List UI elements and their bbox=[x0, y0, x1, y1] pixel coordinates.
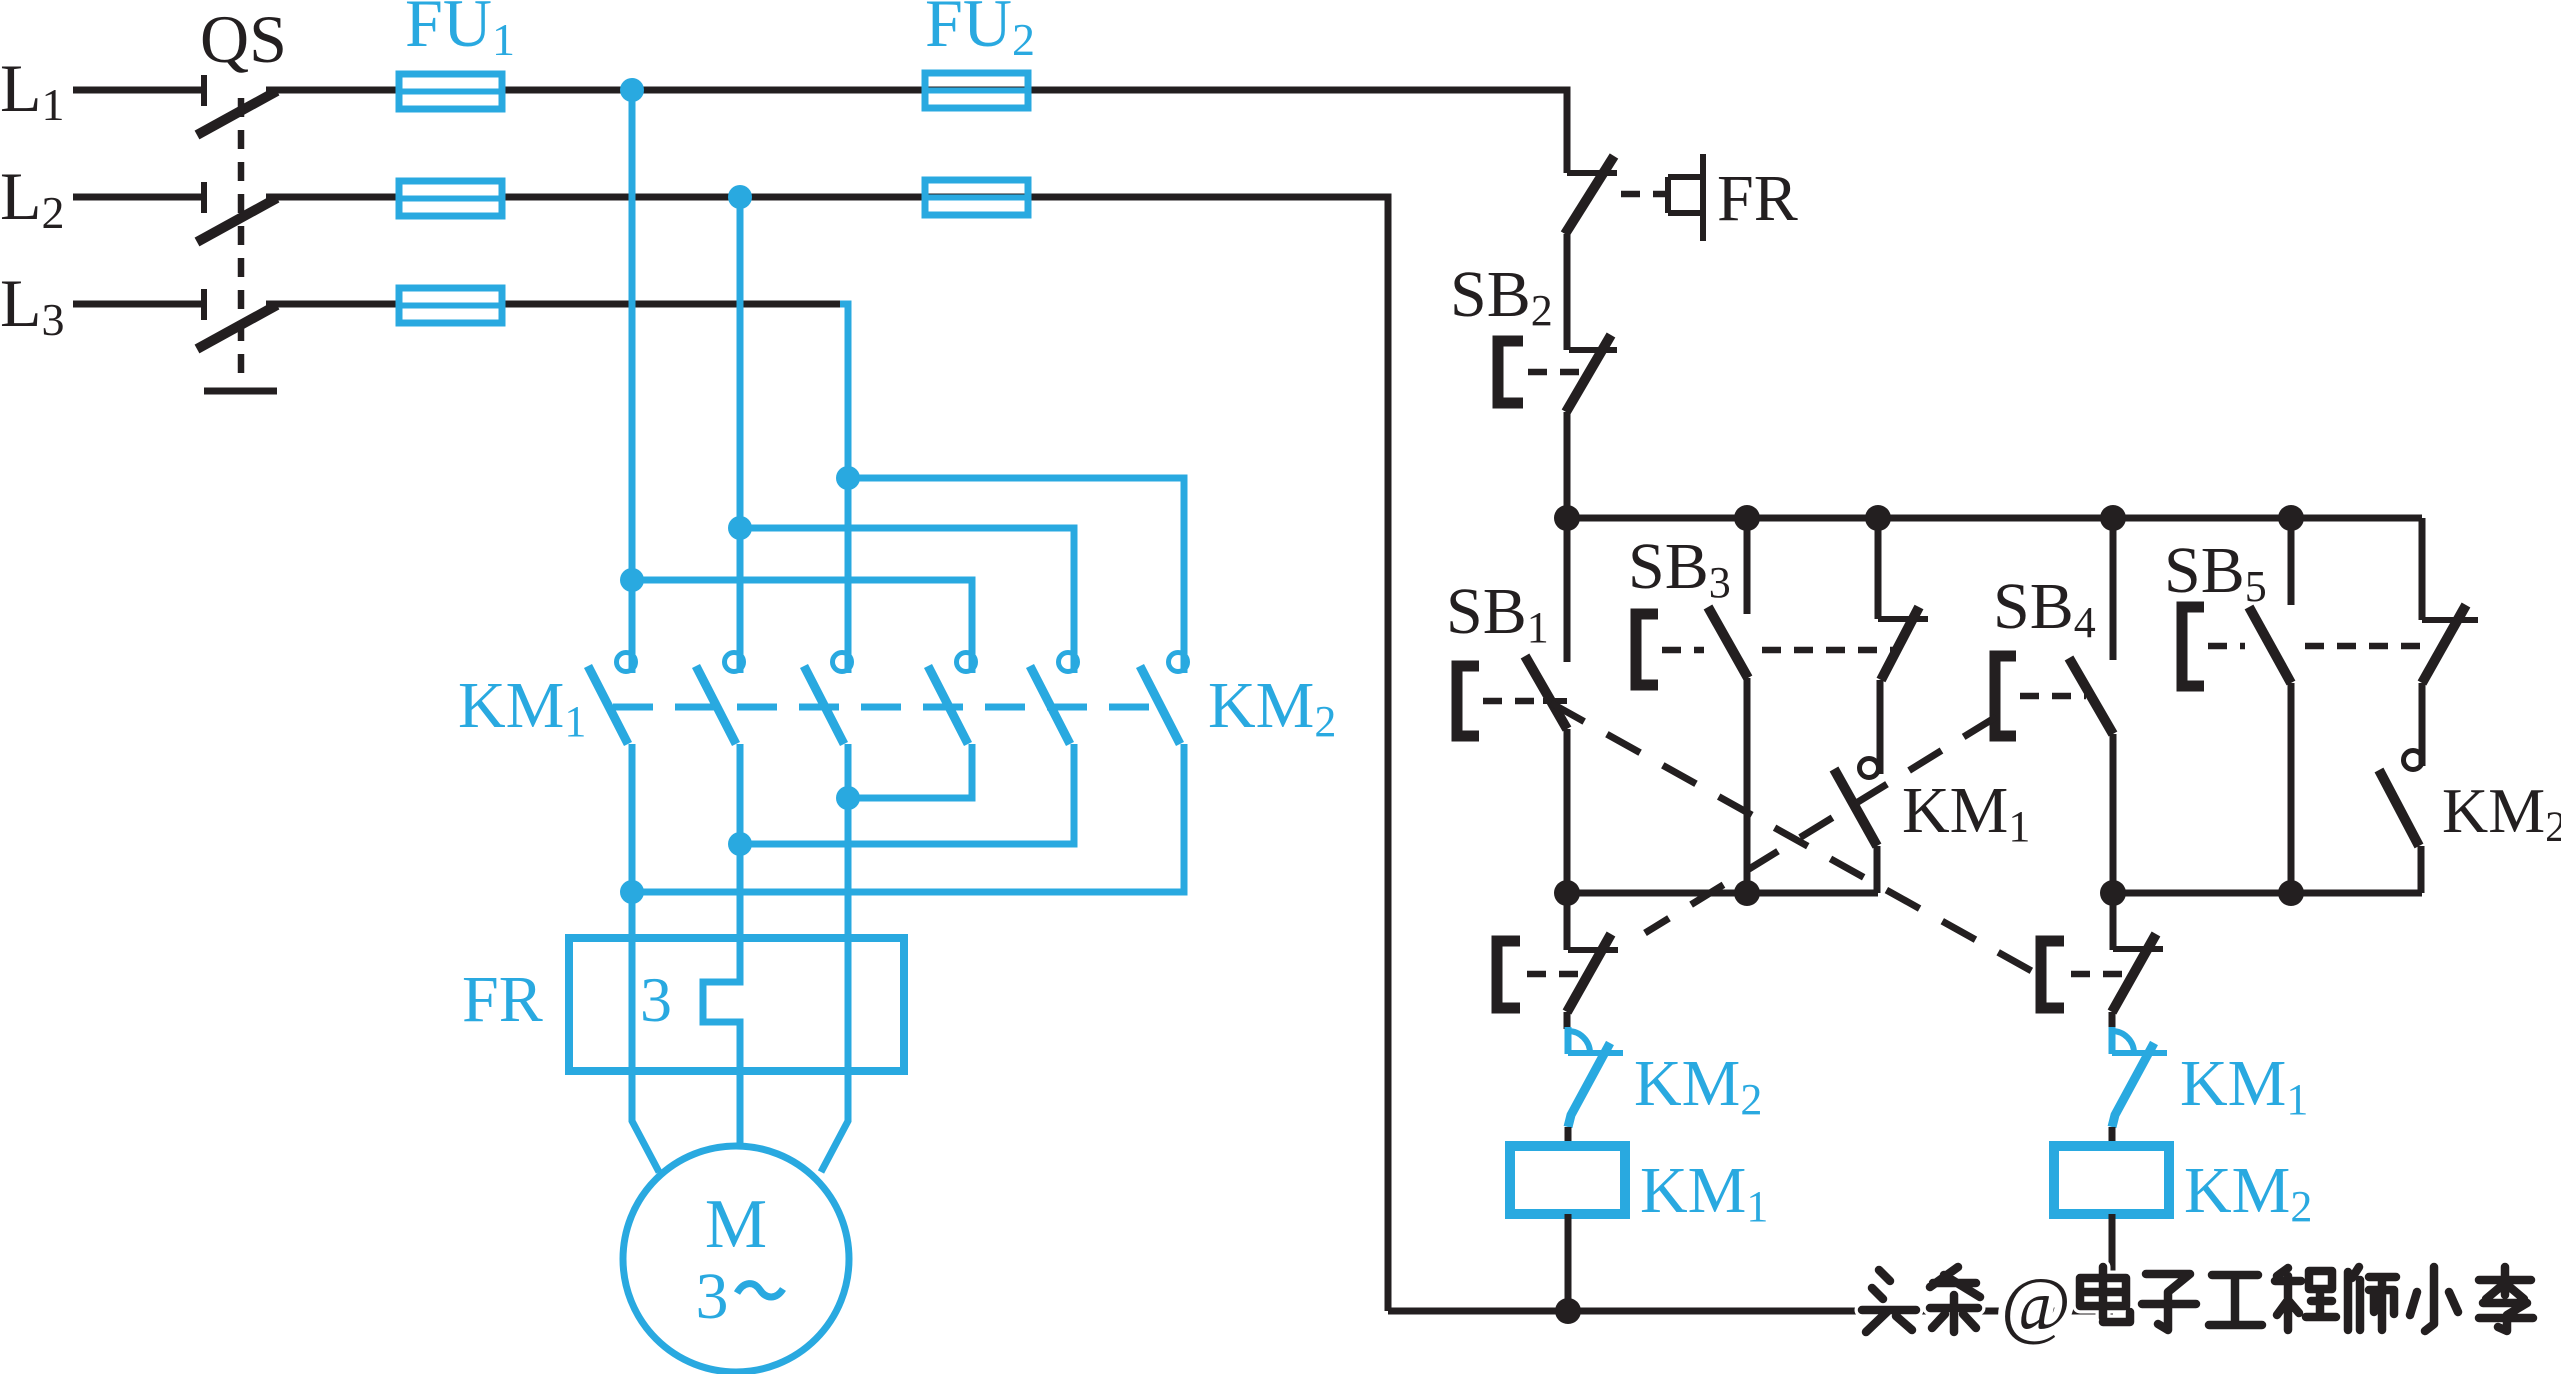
contactor KM2 NC interlock label bbox=[1634, 1047, 1762, 1124]
fuse FU2 pole 1 bbox=[925, 73, 1028, 108]
contactor KM1 NC interlock label bbox=[2180, 1047, 2308, 1124]
mechanical link SB1 to KM2-branch NC (diagonal dashed) bbox=[1551, 703, 2037, 974]
svg-text:SB4: SB4 bbox=[1993, 570, 2096, 647]
NC interlock contact (SB4 linked) tick bbox=[1568, 947, 1618, 953]
svg-text:@: @ bbox=[2001, 1263, 2071, 1347]
wire SB4 to mid bus bbox=[2110, 734, 2117, 893]
wire KM2 pole 3 down and crossover to phase U bbox=[632, 744, 1184, 892]
wire mid bus to SB4-linked NC contact bbox=[1564, 893, 1571, 950]
contactor KM2 main contact pole 2 bbox=[1030, 653, 1078, 745]
wire phase U vertical to KM1 pole 1 bbox=[629, 90, 636, 673]
pushbutton SB2 actuator link dashes bbox=[1528, 369, 1585, 376]
wire L1 QS to FU1 bbox=[266, 87, 399, 94]
wire SB2 to top bus bbox=[1564, 412, 1571, 518]
wire FR box to motor right lead bbox=[821, 1071, 848, 1172]
wire mid bus to SB1-linked NC contact bbox=[2110, 893, 2117, 950]
node junction L1 power branch bbox=[620, 78, 644, 102]
wire branch U to KM2 pole 1 bbox=[632, 580, 972, 673]
node junction L2 power branch bbox=[728, 185, 752, 209]
pushbutton SB2 NC contact tick bbox=[1569, 347, 1617, 353]
wire SB3 NC to KM1 aux contact bbox=[1877, 680, 1884, 774]
wire NC to KM2 interlock bbox=[1564, 1012, 1571, 1029]
pushbutton SB2 NC contact blade bbox=[1566, 335, 1611, 412]
value label 3 inside FR box bbox=[640, 964, 672, 1035]
NC interlock (SB1 linked) actuator bbox=[2041, 941, 2064, 1008]
wire KM1 pole 3 down to FR box bbox=[845, 744, 852, 1071]
coil KM1 bbox=[1510, 1146, 1625, 1214]
pushbutton SB5 actuator bbox=[2182, 607, 2204, 686]
switch QS label bbox=[200, 1, 287, 77]
wire L3 FU1 to corner bbox=[502, 301, 842, 308]
svg-text:M: M bbox=[705, 1186, 767, 1263]
svg-text:KM1: KM1 bbox=[1902, 774, 2030, 851]
wire KM2 aux to mid bus corner bbox=[2418, 846, 2425, 893]
node L3 bbox=[0, 265, 65, 345]
wire L2 QS to FU1 bbox=[266, 194, 399, 201]
thermal relay FR release bracket bbox=[1668, 154, 1703, 241]
wire SB5 NC to KM2 aux contact bbox=[2419, 683, 2426, 766]
thermal relay FR NC contact tick bbox=[1567, 170, 1617, 176]
wire top bus to SB3 NC contact bbox=[1875, 518, 1882, 619]
thermal relay FR heater element bbox=[703, 950, 740, 1053]
wire top bus to SB5 bbox=[2288, 518, 2295, 605]
pushbutton SB4 actuator bbox=[1995, 656, 2016, 736]
NC interlock contact (SB1 linked) tick bbox=[2113, 946, 2163, 952]
wire branch W to KM2 pole 3 bbox=[848, 478, 1184, 673]
svg-text:L1: L1 bbox=[0, 50, 65, 130]
wire L3 QS to FU1 bbox=[266, 301, 399, 308]
node top bus junction 5 bbox=[2278, 505, 2304, 531]
pushbutton SB4 label bbox=[1993, 570, 2096, 647]
svg-text:QS: QS bbox=[200, 1, 287, 77]
wire L1 FU1 to corner, down to FR contact bbox=[502, 90, 1567, 173]
pushbutton SB4 actuator link dashes bbox=[2020, 693, 2086, 700]
wire top bus to SB1 bbox=[1564, 518, 1571, 662]
wire FR box to motor middle lead bbox=[737, 1053, 744, 1146]
fuse FU1 label bbox=[405, 0, 515, 65]
wire phase W corner down to KM1 pole 3 bbox=[840, 304, 848, 673]
NC interlock (SB4 linked) actuator bbox=[1497, 941, 1520, 1008]
wire phase V vertical to KM1 pole 2 bbox=[737, 197, 744, 673]
wire KM2 coil to bottom bus bbox=[2109, 1214, 2116, 1311]
node bottom bus junction bbox=[1555, 1298, 1581, 1324]
node L1 bbox=[0, 50, 65, 130]
pushbutton SB1 NC contact blade bbox=[1525, 656, 1567, 729]
wire L2 FU1 to corner, long return down to bottom bus bbox=[502, 197, 1388, 1311]
svg-text:FR: FR bbox=[462, 963, 543, 1036]
node junction phase W branch to KM2 bbox=[836, 466, 860, 490]
pushbutton SB3 NC contact blade bbox=[1881, 607, 1919, 680]
fuse FU1 pole 3 bbox=[399, 288, 502, 323]
NC interlock (SB4 linked) actuator link dashes bbox=[1527, 971, 1580, 978]
contactor KM1 aux NO contact circle bbox=[1860, 759, 1879, 778]
contactor KM2 aux NO contact circle bbox=[2404, 751, 2423, 770]
pushbutton SB3 label bbox=[1628, 530, 1731, 607]
node top bus junction 4 bbox=[2100, 505, 2126, 531]
switch QS pole 3 contact tick bbox=[201, 289, 207, 320]
pushbutton SB1 actuator link dashes bbox=[1483, 698, 1538, 705]
thermal relay FR heater box bbox=[569, 938, 904, 1071]
svg-text:KM1: KM1 bbox=[1640, 1154, 1768, 1231]
pushbutton SB5 NC contact tick bbox=[2422, 617, 2478, 623]
node top bus junction 3 bbox=[1865, 505, 1891, 531]
watermark white casing bbox=[1862, 1263, 2533, 1347]
contactor KM1 main contact pole 2 bbox=[696, 653, 744, 745]
thermal relay FR contact label bbox=[1717, 162, 1798, 235]
pushbutton SB1 actuator bbox=[1457, 666, 1479, 736]
contactor KM2 main contact pole 1 bbox=[928, 653, 976, 745]
thermal relay FR NC link dashes bbox=[1621, 191, 1666, 198]
wire mid bus left bbox=[1567, 890, 1878, 897]
contactor KM2 NC interlock contact (cyan) bbox=[1568, 1027, 1623, 1127]
svg-text:SB5: SB5 bbox=[2164, 534, 2267, 611]
contactor KM1 aux NO contact blade bbox=[1834, 769, 1877, 846]
pushbutton SB4 NO contact blade bbox=[2069, 658, 2113, 734]
svg-text:KM2: KM2 bbox=[1208, 669, 1336, 746]
svg-text:FU2: FU2 bbox=[925, 0, 1035, 65]
wire KM1 coil to bottom bus bbox=[1565, 1214, 1572, 1311]
fuse FU2 label bbox=[925, 0, 1035, 65]
thermal relay FR NC contact blade bbox=[1565, 156, 1614, 234]
contactor KM1 label bbox=[458, 669, 586, 746]
wire top bus bbox=[1567, 515, 2422, 522]
pushbutton SB1 NC contact tick bbox=[1543, 698, 1567, 704]
svg-text:KM2: KM2 bbox=[2184, 1154, 2312, 1231]
wire FR contact to SB2 bbox=[1564, 234, 1571, 350]
wire bottom bus bbox=[1388, 1308, 2113, 1315]
wire KM1 aux to mid bus corner bbox=[1874, 846, 1881, 893]
wire SB3 to mid bus bbox=[1744, 678, 1751, 893]
svg-text:KM1: KM1 bbox=[2180, 1047, 2308, 1124]
contactor KM2 aux label bbox=[2442, 775, 2561, 851]
wire KM2 pole 2 down and crossover to phase V bbox=[740, 744, 1074, 844]
contactor KM2 main contact pole 3 bbox=[1140, 653, 1188, 745]
svg-text:L3: L3 bbox=[0, 265, 65, 345]
wire FR box to motor left lead bbox=[632, 1071, 659, 1172]
svg-text:3: 3 bbox=[696, 1260, 729, 1333]
node junction crossover W bbox=[836, 786, 860, 810]
pushbutton SB5 label bbox=[2164, 534, 2267, 611]
svg-text:FR: FR bbox=[1717, 162, 1798, 235]
contactor KM1 main contact pole 1 bbox=[588, 653, 636, 745]
wire top bus to SB4 bbox=[2110, 518, 2117, 660]
svg-text:SB2: SB2 bbox=[1450, 258, 1553, 335]
NC interlock (SB1 linked) actuator link dashes bbox=[2071, 971, 2124, 978]
contactor KM1 NC interlock contact (cyan) bbox=[2112, 1027, 2167, 1127]
pushbutton SB2 actuator bbox=[1498, 341, 1523, 403]
node mid bus left junction 2 bbox=[1734, 880, 1760, 906]
wire branch V to KM2 pole 2 bbox=[740, 528, 1074, 673]
wire SB1 to mid bus bbox=[1564, 729, 1571, 893]
switch QS pole 2 blade bbox=[197, 198, 277, 242]
switch QS pole 3 blade bbox=[197, 305, 277, 349]
svg-text:L2: L2 bbox=[0, 158, 65, 238]
motor M circle bbox=[623, 1146, 849, 1372]
wire KM1 pole 2 down to FR heater bbox=[737, 744, 744, 950]
wire NC to KM1 interlock bbox=[2109, 1012, 2116, 1029]
wire KM1 interlock to KM2 coil bbox=[2109, 1127, 2116, 1146]
coil KM1 label bbox=[1640, 1154, 1768, 1231]
wire SB5 to mid bus bbox=[2288, 683, 2295, 893]
node junction phase U branch to KM2 bbox=[620, 568, 644, 592]
mechanical link SB5 to its NC contact dashes bbox=[2305, 643, 2430, 650]
switch QS pole 1 contact tick bbox=[201, 75, 207, 106]
pushbutton SB1 label bbox=[1446, 575, 1549, 652]
pushbutton SB3 actuator bbox=[1636, 614, 1658, 685]
mechanical link SB3 to its NC contact dashes bbox=[1762, 647, 1893, 654]
mechanical link SB4 to KM1-branch NC (diagonal dashed) bbox=[1645, 717, 1996, 933]
svg-text:KM2: KM2 bbox=[1634, 1047, 1762, 1124]
node junction crossover V bbox=[728, 832, 752, 856]
NC interlock contact (SB1 linked) blade bbox=[2112, 934, 2156, 1012]
coil KM2 bbox=[2054, 1146, 2169, 1214]
node junction crossover U bbox=[620, 880, 644, 904]
wire L2 to QS bbox=[73, 194, 202, 201]
pushbutton SB3 actuator link dashes bbox=[1662, 647, 1704, 654]
contactor KM1 main contact pole 3 bbox=[804, 653, 852, 745]
wire top bus to SB3 bbox=[1744, 518, 1751, 614]
pushbutton SB5 actuator link dashes bbox=[2208, 643, 2245, 650]
wire top bus corner down to SB5 NC contact bbox=[2419, 518, 2426, 620]
wire L3 to QS bbox=[73, 301, 202, 308]
svg-text:SB1: SB1 bbox=[1446, 575, 1549, 652]
wire KM1 pole 1 down to FR box bbox=[629, 744, 636, 1071]
pushbutton SB3 NC contact tick bbox=[1878, 616, 1928, 622]
fuse FU1 pole 2 bbox=[399, 181, 502, 216]
thermal relay FR label bbox=[462, 963, 543, 1036]
node mid bus left junction 1 bbox=[1554, 880, 1580, 906]
node top bus junction 1 bbox=[1554, 505, 1580, 531]
svg-text:SB3: SB3 bbox=[1628, 530, 1731, 607]
contactor KM1 aux label bbox=[1902, 774, 2030, 851]
svg-text:3: 3 bbox=[640, 964, 672, 1035]
motor M label bbox=[705, 1186, 767, 1263]
pushbutton SB5 NO contact blade bbox=[2249, 607, 2291, 683]
fuse FU1 pole 1 bbox=[399, 74, 502, 109]
node L2 bbox=[0, 158, 65, 238]
pushbutton SB5 NC contact blade bbox=[2422, 605, 2466, 683]
pushbutton SB3 NO contact blade bbox=[1708, 607, 1748, 678]
wire KM2 interlock to KM1 coil bbox=[1565, 1127, 1572, 1146]
wire KM2 pole 1 down and crossover to phase W bbox=[848, 744, 972, 798]
switch QS pole 1 blade bbox=[197, 91, 277, 135]
node top bus junction 2 bbox=[1734, 505, 1760, 531]
contactor main contacts linkage dashed line bbox=[613, 704, 1160, 711]
fuse FU2 pole 2 bbox=[925, 180, 1028, 215]
contactor KM2 aux NO contact blade bbox=[2379, 770, 2419, 846]
switch QS linkage dashed line bbox=[238, 98, 245, 383]
motor 3-phase label bbox=[696, 1260, 784, 1333]
switch QS linkage end bar bbox=[204, 388, 277, 395]
wire L1 to QS bbox=[73, 87, 202, 94]
svg-text:KM1: KM1 bbox=[458, 669, 586, 746]
pushbutton SB2 label bbox=[1450, 258, 1553, 335]
switch QS pole 2 contact tick bbox=[201, 182, 207, 213]
node junction phase V branch to KM2 bbox=[728, 516, 752, 540]
svg-text:KM2: KM2 bbox=[2442, 775, 2561, 851]
coil KM2 label bbox=[2184, 1154, 2312, 1231]
contactor KM2 label bbox=[1208, 669, 1336, 746]
wire mid bus right bbox=[2113, 890, 2422, 897]
node mid bus right junction 1 bbox=[2100, 880, 2126, 906]
watermark black strokes bbox=[1862, 1263, 2533, 1347]
svg-text:FU1: FU1 bbox=[405, 0, 515, 65]
NC interlock contact (SB4 linked) blade bbox=[1567, 934, 1611, 1012]
node mid bus right junction 2 bbox=[2278, 880, 2304, 906]
